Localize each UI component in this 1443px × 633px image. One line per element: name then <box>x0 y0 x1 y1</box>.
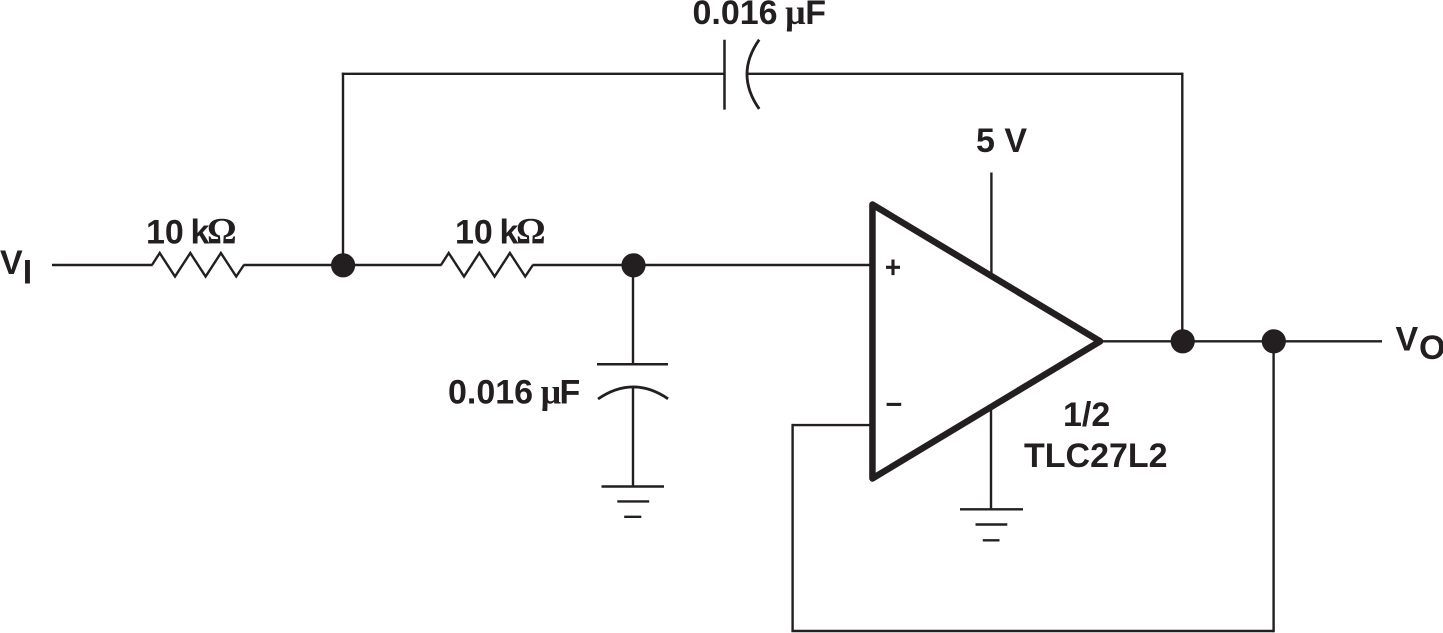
wire feedback right vertical to output node 2 <box>1272 341 1274 632</box>
svg-text:0.016µF: 0.016µF <box>448 372 580 412</box>
wire op-amp to ground <box>990 406 992 509</box>
junction output node 2 <box>1262 329 1286 353</box>
svg-text:1/2: 1/2 <box>1063 396 1110 434</box>
svg-text:10kΩ: 10kΩ <box>146 212 237 253</box>
junction output node 1 <box>1171 329 1195 353</box>
resistor R1 <box>152 253 244 277</box>
ground (op-amp) <box>960 509 1023 540</box>
wire top left to C1 <box>342 73 725 75</box>
resistor R2 <box>441 253 533 277</box>
wire 5V supply to op-amp <box>990 173 992 278</box>
svg-text:0.016µF: 0.016µF <box>693 0 827 32</box>
wire feedback bottom horizontal <box>791 630 1273 632</box>
capacitor C1 <box>725 40 760 110</box>
wire node A to R2 <box>343 264 442 266</box>
svg-text:5 V: 5 V <box>976 122 1027 160</box>
wire input VI to R1 <box>52 264 153 266</box>
wire R1 to node A <box>244 264 344 266</box>
junction node B <box>621 253 645 277</box>
wire node A up to feedback cap <box>342 73 344 265</box>
wire C2 to ground <box>632 386 634 487</box>
wire feedback from minus input to left corner <box>793 424 871 426</box>
svg-text:TLC27L2: TLC27L2 <box>1024 437 1168 475</box>
wire node B down to C2 <box>632 265 634 364</box>
ground (below C2) <box>602 487 665 517</box>
wire R2 through node B to op-amp + input <box>533 264 872 266</box>
wire C1 to top right corner <box>748 73 1182 75</box>
wire down from top right corner to output node <box>1181 73 1183 342</box>
junction node A <box>331 253 355 277</box>
capacitor C2 <box>597 364 668 399</box>
wire op-amp output to VO <box>1100 340 1382 342</box>
wire feedback left vertical <box>791 424 793 631</box>
op-amp U1 <box>872 205 1100 479</box>
svg-text:10kΩ: 10kΩ <box>455 212 546 253</box>
